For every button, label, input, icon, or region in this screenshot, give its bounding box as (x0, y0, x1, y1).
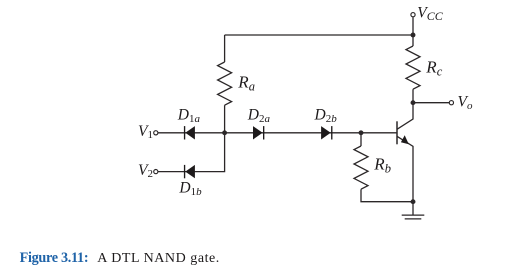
node junction emitter / Rb return / ground (411, 199, 416, 204)
terminal Vcc (411, 13, 415, 17)
svg-text:Vo: Vo (458, 94, 473, 112)
node junction Rc / collector / Vo (411, 100, 416, 105)
wire top rail from Ra top to Vcc stem (225, 34, 413, 36)
terminal V1 (154, 131, 158, 135)
transistor Q1 base bar (396, 121, 398, 144)
diode D2b (321, 126, 332, 139)
ground (402, 215, 425, 219)
caption Figure 3.11 (20, 250, 220, 267)
wire Vo lead (413, 102, 449, 104)
terminal V2 (154, 170, 158, 174)
svg-text:D2b: D2b (314, 107, 338, 125)
transistor Q1 emitter arrow (401, 135, 409, 144)
wire Rc top lead (412, 35, 414, 46)
wire Rb top lead (360, 133, 362, 146)
diode D1b (184, 165, 195, 178)
ground stem (412, 202, 414, 215)
svg-text:V2: V2 (138, 162, 153, 180)
wire Ra bottom lead (224, 105, 226, 133)
resistor Ra (218, 62, 232, 105)
svg-text:D2a: D2a (247, 107, 271, 125)
svg-text:Rb: Rb (373, 155, 391, 176)
svg-text:VCC: VCC (417, 5, 443, 23)
wire Vcc stem (412, 17, 414, 35)
svg-text:V1: V1 (138, 123, 153, 141)
terminal Vo (449, 101, 453, 105)
wire V1 to transistor base (158, 132, 397, 134)
wire Rc bottom lead to collector node (412, 89, 414, 103)
resistor Rb (354, 146, 368, 189)
node X junction Ra / input diodes / D2a (222, 130, 227, 135)
wire Rb bottom lead to ground rail (361, 189, 413, 202)
svg-text:Ra: Ra (237, 73, 255, 94)
node junction base wire / Rb (359, 130, 364, 135)
diode D2a (253, 126, 264, 139)
svg-text:D1b: D1b (178, 180, 202, 198)
wire V2 branch to node X (158, 133, 225, 172)
transistor Q1 emitter lead (397, 136, 413, 201)
wire Ra top lead (224, 35, 226, 62)
transistor Q1 collector lead (397, 103, 413, 130)
node junction top rail / Rc (411, 33, 416, 38)
diode D1a (184, 126, 195, 139)
resistor Rc (406, 46, 420, 89)
svg-text:D1a: D1a (177, 107, 201, 125)
svg-text:Rc: Rc (425, 58, 442, 79)
